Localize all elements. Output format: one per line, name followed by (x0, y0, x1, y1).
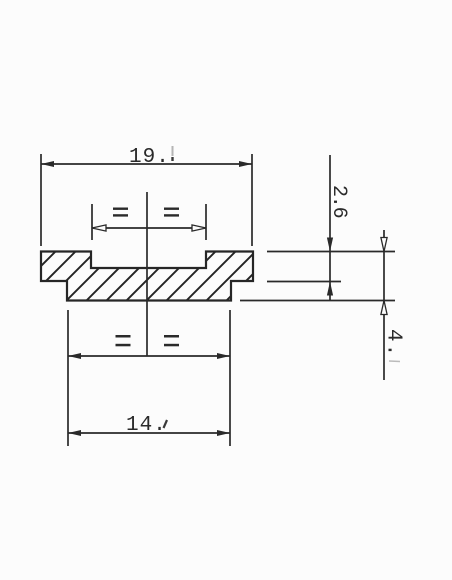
dimension 2.6 arrow lower (327, 282, 333, 296)
svg-text:14.: 14. (126, 414, 167, 437)
dimension 2.6 arrow upper (327, 238, 333, 252)
dimension 14 arrow right (217, 430, 230, 436)
dimension 19.5 extension line left (40, 154, 42, 246)
dimension 4.5 clipped digit fragment (389, 360, 400, 363)
hatching (2, 245, 282, 305)
symmetric width dimension line (68, 355, 230, 357)
dimension 4.5 hollow arrow lower (381, 301, 387, 315)
bottom width extension line right (229, 310, 231, 446)
equality mark lower left (116, 335, 131, 346)
dimension 4.5 hollow arrow upper (381, 238, 387, 252)
equality mark lower right (164, 335, 179, 346)
symmetric width arrow left (68, 353, 81, 359)
recess width hollow arrow left (92, 225, 106, 231)
extension line B middle right (267, 281, 341, 283)
symmetric width arrow right (217, 353, 230, 359)
vertical center line (146, 192, 148, 356)
dimension 19.5 clipped digit fragment (172, 146, 174, 156)
dimension 19.5 extension line right (251, 154, 253, 246)
recess width extension line left (91, 204, 93, 240)
svg-text:4.: 4. (382, 329, 405, 358)
extension line C bottom right (240, 300, 395, 302)
dimension 14 dimension line (68, 432, 230, 434)
dimension 19.5 arrow right (239, 161, 252, 167)
svg-text:19.: 19. (129, 146, 170, 169)
dimension 2.6 dimension line (329, 155, 331, 301)
svg-text:2.6: 2.6 (327, 185, 350, 218)
part cross-section outline (41, 252, 253, 301)
dimension 4.5 dimension line (383, 230, 385, 380)
recess width extension line right (205, 204, 207, 240)
equality mark upper left (113, 208, 128, 217)
dimension 14 arrow left (68, 430, 81, 436)
equality mark upper right (164, 208, 179, 217)
dimension 19.5 dimension line (41, 163, 252, 165)
dimension 19.5 arrow left (41, 161, 54, 167)
recess width hollow arrow right (192, 225, 206, 231)
dimension 14 clipped digit fragment (164, 420, 168, 428)
bottom width extension line left (67, 310, 69, 446)
recess width dimension line (92, 227, 206, 229)
extension line A top right (267, 251, 395, 253)
